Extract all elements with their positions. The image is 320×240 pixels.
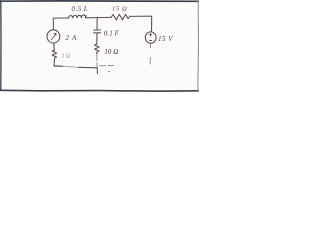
svg-text:10 Ω: 10 Ω [104,48,118,56]
svg-text:15 V: 15 V [158,35,174,43]
svg-text:0.5 L: 0.5 L [72,5,89,13]
svg-text:15 Ω: 15 Ω [112,6,127,13]
svg-text:0.1 F: 0.1 F [104,30,120,38]
svg-text:2 A: 2 A [66,35,78,42]
svg-text:1 Ω: 1 Ω [62,54,72,60]
